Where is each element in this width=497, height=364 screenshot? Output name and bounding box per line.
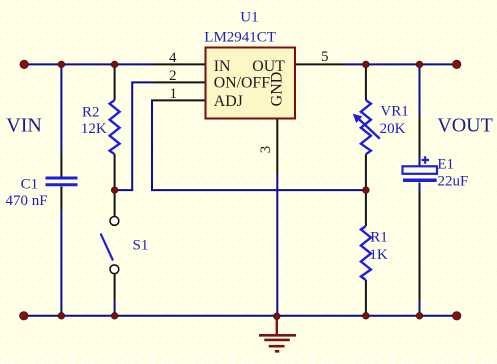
svg-text:22uF: 22uF [438, 173, 469, 189]
svg-text:IN: IN [214, 58, 231, 75]
svg-text:12K: 12K [81, 121, 107, 137]
svg-text:ON/OFF: ON/OFF [214, 75, 270, 92]
svg-text:3: 3 [258, 146, 274, 154]
svg-text:1K: 1K [369, 247, 388, 263]
svg-text:R1: R1 [370, 229, 388, 245]
svg-text:470 nF: 470 nF [6, 193, 48, 209]
svg-text:U1: U1 [240, 9, 258, 25]
svg-text:VR1: VR1 [380, 103, 408, 119]
svg-text:1: 1 [170, 86, 178, 102]
svg-text:4: 4 [169, 50, 177, 66]
svg-text:LM2941CT: LM2941CT [204, 30, 276, 46]
svg-text:VOUT: VOUT [437, 115, 493, 137]
svg-text:VIN: VIN [6, 115, 42, 137]
svg-text:E1: E1 [437, 156, 454, 172]
svg-text:2: 2 [169, 68, 177, 84]
svg-text:C1: C1 [21, 176, 39, 192]
svg-text:GND: GND [269, 72, 286, 107]
svg-text:S1: S1 [133, 237, 149, 253]
svg-text:20K: 20K [380, 121, 406, 137]
svg-text:ADJ: ADJ [214, 93, 243, 110]
svg-text:R2: R2 [82, 104, 100, 120]
svg-text:5: 5 [321, 49, 329, 65]
